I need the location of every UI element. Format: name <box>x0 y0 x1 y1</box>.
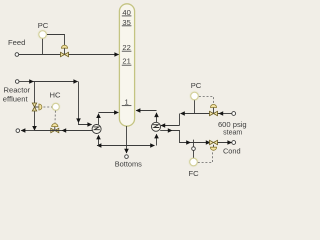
node Reactor effluent (source circle) <box>3 80 31 104</box>
svg-text:Bottoms: Bottoms <box>115 159 142 168</box>
wire PC1 pressure tap to feed line <box>42 39 44 55</box>
wire bottoms header <box>126 126 128 153</box>
valve V5 (condensate control valve) <box>210 140 218 150</box>
svg-text:600 psig: 600 psig <box>218 120 247 129</box>
controller PC1 (feed pressure) <box>38 21 49 39</box>
controller HC1 (hand controller) <box>50 90 61 111</box>
orifice FE (flow element) <box>192 140 196 151</box>
wire feed line into column tray 21 <box>19 54 119 56</box>
controller PC2 (steam pressure) <box>190 81 202 101</box>
tray 40 label <box>122 8 132 17</box>
wire PC1 signal to valve V1 <box>47 35 65 46</box>
svg-text:Feed: Feed <box>8 38 25 47</box>
wire FE tap to FC1 <box>193 150 195 157</box>
wire FC1 signal to valve V5 <box>198 152 213 163</box>
wire E2 vapor return to column bottom <box>156 113 158 122</box>
wire header to E2 riser <box>127 145 155 147</box>
node Bottoms product <box>115 155 142 169</box>
wire E1 vapor return to column bottom <box>98 114 100 125</box>
svg-text:PC: PC <box>38 21 49 30</box>
wire effluent bypass branch (vertical) <box>34 82 36 131</box>
exchanger E1 (feed-bottoms exchanger) <box>92 125 101 134</box>
wire reactor effluent header <box>19 81 33 83</box>
wire HC1 signal to valve V3 <box>54 111 56 123</box>
wire steam line to E2 <box>219 113 232 115</box>
wire condensate line through orifice to valve V5 <box>190 142 210 144</box>
wire effluent to exchanger E1 (down at x=78) <box>33 81 77 83</box>
tray 35 label <box>122 18 132 27</box>
node Cond outlet circle <box>223 141 241 156</box>
node Feed (source circle) <box>8 38 25 56</box>
node 600 psig steam source <box>218 112 247 137</box>
svg-text:FC: FC <box>188 169 199 178</box>
node cooled effluent outlet circle <box>16 129 20 133</box>
wire PC2 tap to steam line <box>194 100 196 113</box>
tray 21 label <box>122 57 132 66</box>
svg-text:Reactor: Reactor <box>4 86 31 95</box>
wire header riser to E1 <box>98 135 100 145</box>
svg-text:Cond: Cond <box>223 147 241 156</box>
tray 1 label <box>122 98 132 107</box>
valve V2 (bypass valve, vertical) <box>32 103 42 111</box>
tray 22 label <box>122 43 132 52</box>
valve V4 (steam control valve) <box>210 104 218 115</box>
column C1 (distillation tower) <box>119 4 134 126</box>
wire HC1 signal to valve V2 <box>43 106 52 108</box>
wire exchanger E1 outlet to left exit <box>62 130 92 132</box>
svg-text:effluent: effluent <box>3 95 29 104</box>
svg-text:PC: PC <box>191 81 202 90</box>
svg-text:21: 21 <box>122 57 130 66</box>
wire PC2 signal to valve V4 <box>199 97 214 105</box>
exchanger E2 (reboiler) <box>152 122 161 131</box>
svg-text:steam: steam <box>223 129 242 136</box>
svg-text:HC: HC <box>50 90 61 99</box>
valve V1 (feed control valve) <box>61 45 69 57</box>
controller FC1 (condensate flow) <box>188 157 199 178</box>
wire E2 condensate outlet <box>160 130 172 132</box>
valve V3 (exchanger outlet valve) <box>51 123 59 132</box>
